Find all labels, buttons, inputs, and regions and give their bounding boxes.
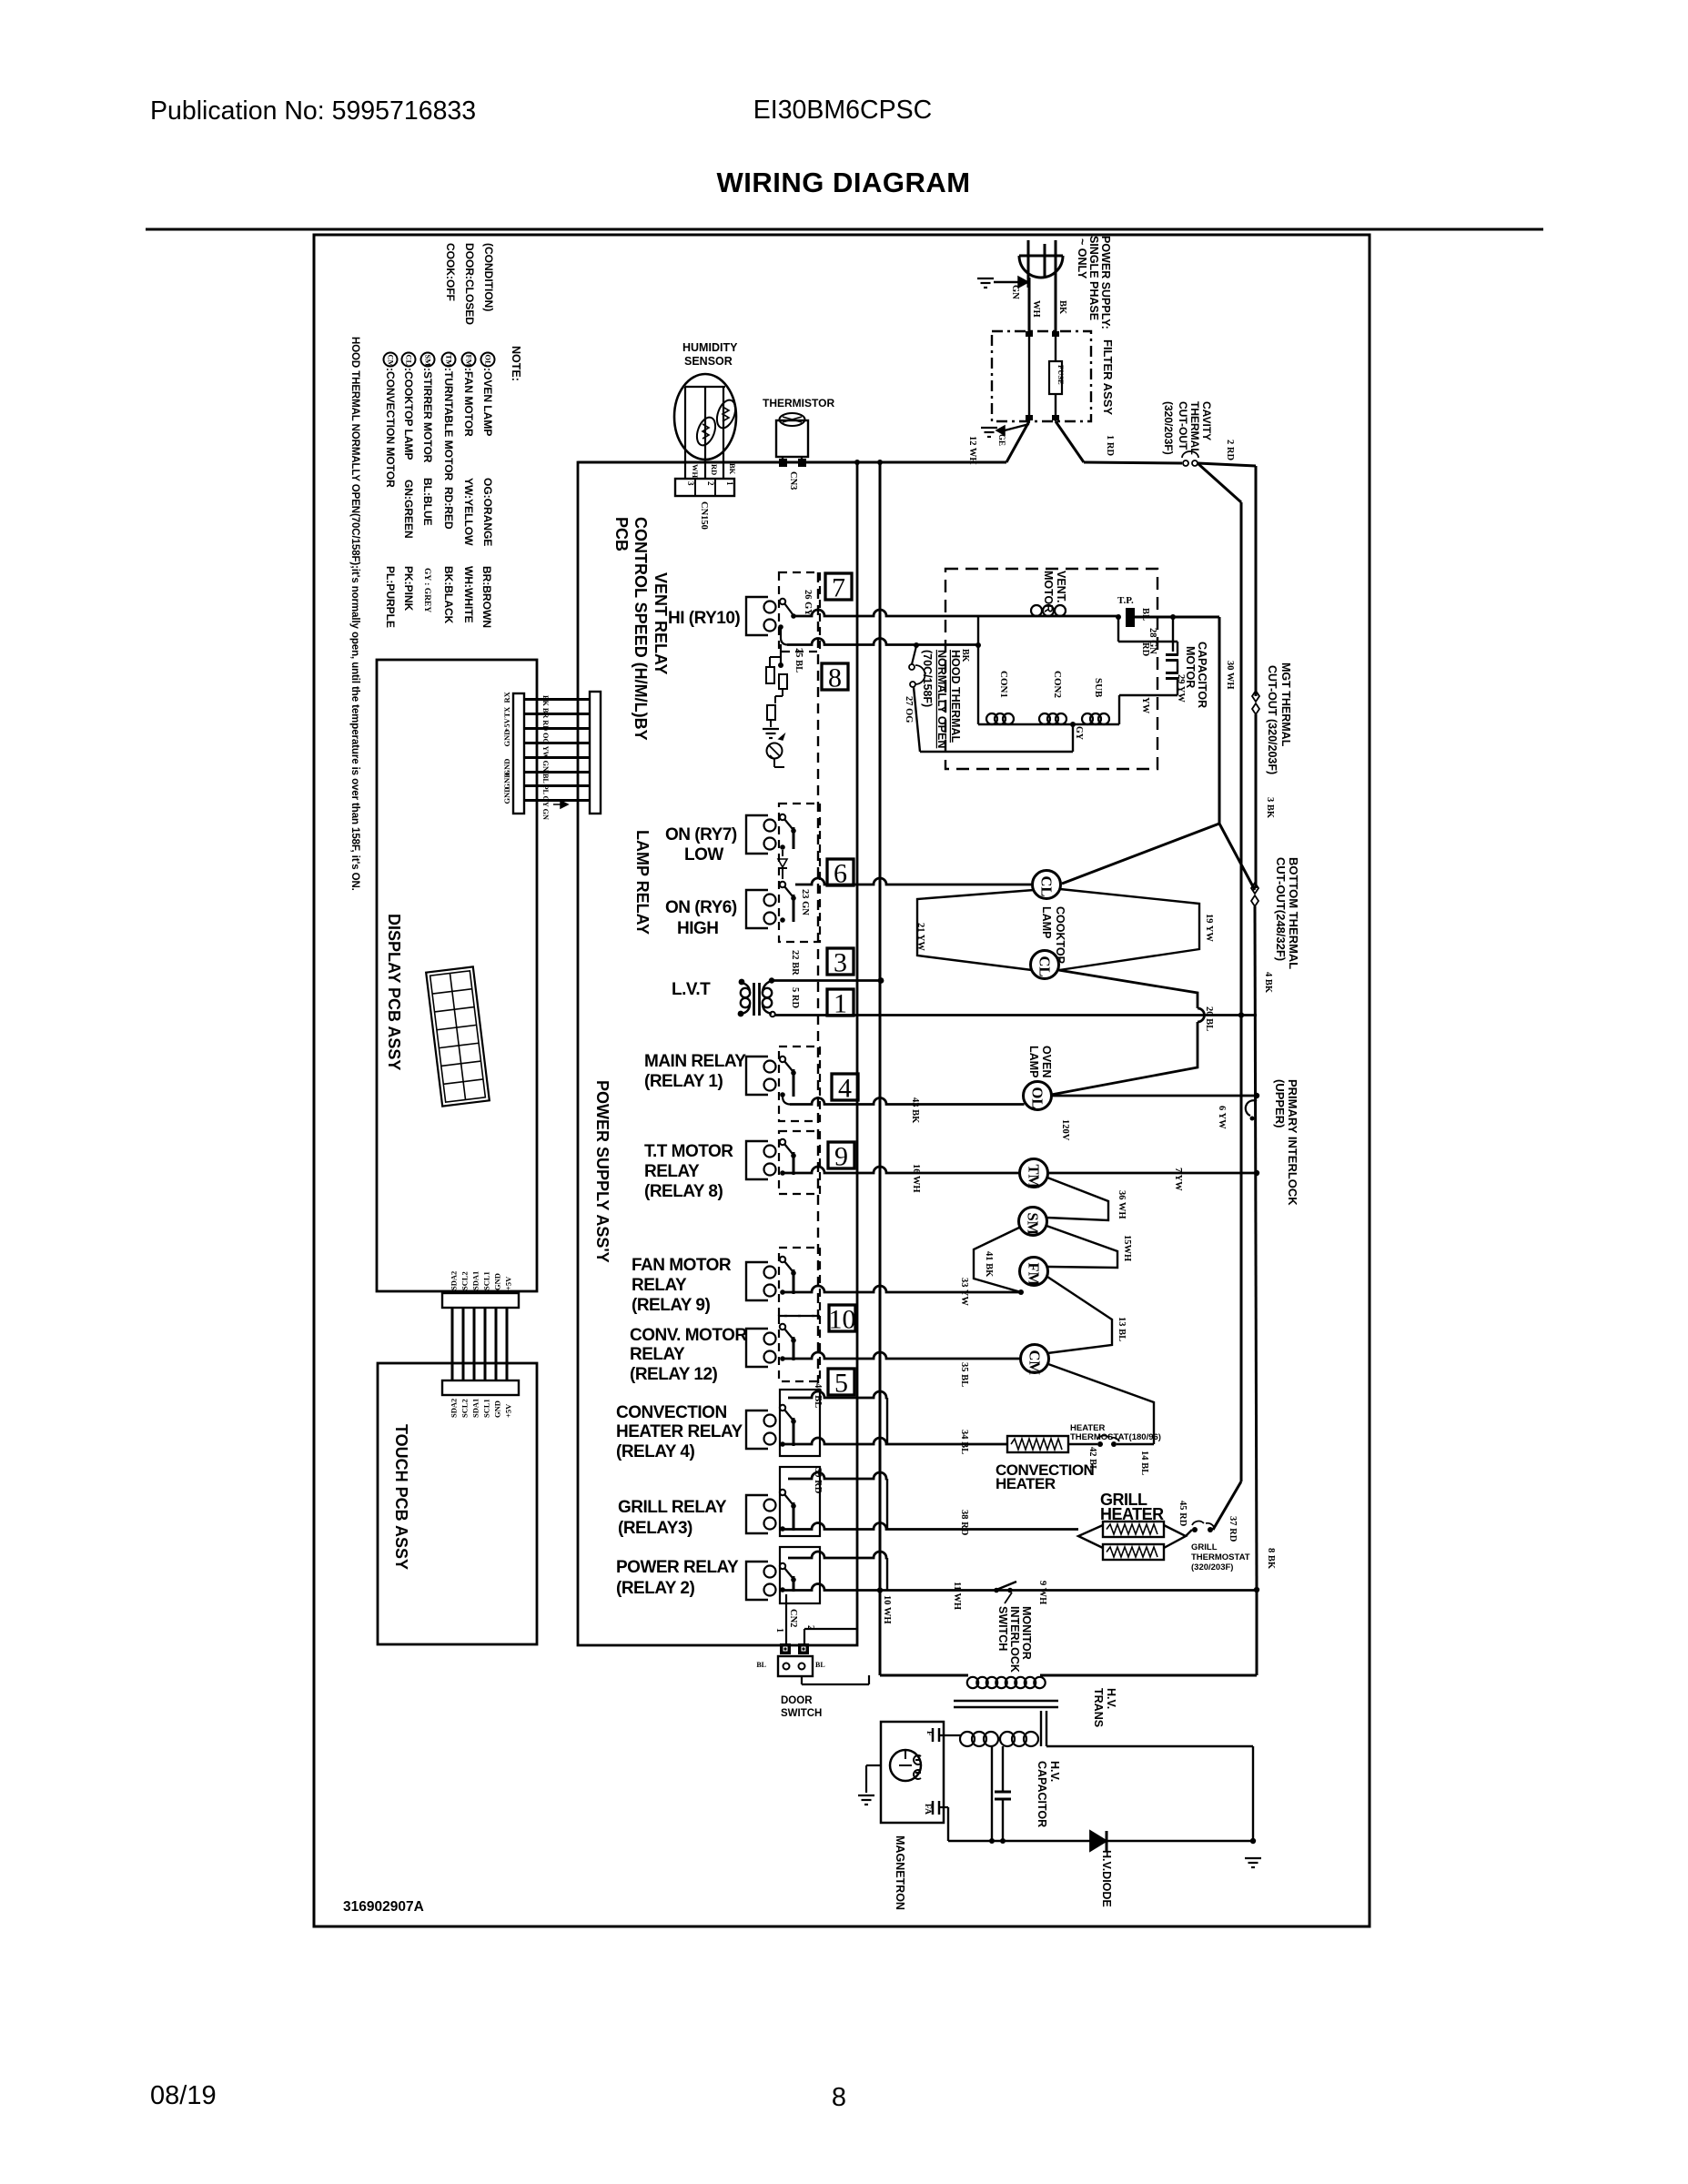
svg-text:PCB: PCB [612, 517, 631, 551]
svg-text:ON (RY7): ON (RY7) [665, 825, 737, 844]
svg-text:BL: BL [756, 1661, 766, 1669]
svg-text:CUT-OUT(248/32F): CUT-OUT(248/32F) [1274, 857, 1288, 961]
svg-text:VENT RELAY: VENT RELAY [652, 572, 670, 674]
svg-text:RX: RX [502, 691, 511, 703]
svg-text:EI30BM6CPSC: EI30BM6CPSC [753, 96, 932, 125]
svg-text:39 RD: 39 RD [813, 1468, 823, 1494]
svg-text:GY : GREY: GY : GREY [422, 568, 431, 612]
svg-text:THERMOSTAT: THERMOSTAT [1191, 1552, 1250, 1562]
svg-text:T.P.: T.P. [1117, 595, 1134, 606]
svg-text:36 WH: 36 WH [1117, 1190, 1127, 1219]
svg-text:GE: GE [997, 434, 1006, 446]
svg-text:1: 1 [774, 1628, 784, 1633]
svg-text:5 RD: 5 RD [790, 987, 800, 1008]
svg-text:MAIN RELAY: MAIN RELAY [644, 1052, 746, 1071]
svg-text:SDA2: SDA2 [450, 1271, 459, 1290]
svg-text::TURNTABLE MOTOR: :TURNTABLE MOTOR [442, 368, 455, 481]
svg-text:42 BL: 42 BL [1087, 1447, 1097, 1471]
svg-text:BOTTOM THERMAL: BOTTOM THERMAL [1287, 857, 1300, 969]
svg-text:8: 8 [828, 663, 842, 693]
svg-text:5: 5 [834, 1369, 848, 1399]
svg-text:SWITCH: SWITCH [781, 1708, 822, 1719]
svg-text:THERMOSTAT(180/96): THERMOSTAT(180/96) [1070, 1432, 1161, 1442]
svg-text:(70C/158F): (70C/158F) [921, 650, 934, 707]
svg-text:13 BL: 13 BL [1117, 1317, 1127, 1341]
svg-text:7 YW: 7 YW [1173, 1168, 1183, 1191]
svg-text:9 WH: 9 WH [1037, 1581, 1047, 1604]
svg-text:OL: OL [484, 355, 493, 367]
svg-text:2 RD: 2 RD [1225, 440, 1235, 460]
svg-text:FAN MOTOR: FAN MOTOR [632, 1256, 732, 1275]
svg-text:+5V: +5V [504, 1403, 513, 1418]
svg-text:H.V.: H.V. [1048, 1761, 1061, 1782]
svg-text:CL: CL [405, 355, 414, 366]
svg-text:FA: FA [923, 1804, 932, 1815]
svg-text:25 BL: 25 BL [793, 648, 804, 672]
svg-text:28 GN: 28 GN [1147, 628, 1157, 654]
svg-text:9: 9 [834, 1142, 848, 1172]
svg-text:CN3: CN3 [788, 471, 798, 490]
svg-text:LOW: LOW [684, 845, 723, 864]
svg-text:(CONDITION): (CONDITION) [482, 243, 495, 311]
svg-text:GND: GND [502, 787, 511, 804]
svg-text:HI (RY10): HI (RY10) [668, 609, 740, 628]
svg-text:CON1: CON1 [998, 671, 1009, 698]
svg-text:120V: 120V [1060, 1119, 1070, 1141]
svg-text:SDA1: SDA1 [471, 1399, 480, 1418]
svg-text:21 YW: 21 YW [915, 923, 925, 951]
svg-text:43 BK: 43 BK [910, 1097, 920, 1124]
svg-text:20 BL: 20 BL [1204, 1006, 1214, 1031]
svg-text:MGT THERMAL: MGT THERMAL [1279, 662, 1292, 747]
svg-text:CON2: CON2 [1052, 671, 1063, 698]
svg-text:CONVECTION: CONVECTION [616, 1403, 727, 1422]
svg-text:CUT-OUT (320/203F): CUT-OUT (320/203F) [1266, 665, 1279, 774]
svg-text:CAVITY: CAVITY [1200, 401, 1213, 440]
svg-text:(UPPER): (UPPER) [1273, 1079, 1287, 1127]
svg-text::OVEN LAMP: :OVEN LAMP [481, 368, 494, 436]
svg-text:GND: GND [493, 1273, 502, 1290]
svg-text:CN2: CN2 [788, 1609, 798, 1627]
svg-text:41 BK: 41 BK [984, 1251, 994, 1278]
svg-text:HEATER RELAY: HEATER RELAY [616, 1422, 743, 1441]
svg-text:SM: SM [1025, 1213, 1042, 1236]
svg-text:LAMP RELAY: LAMP RELAY [633, 830, 652, 935]
svg-text:GND: GND [502, 730, 511, 747]
svg-text:SCL1: SCL1 [482, 1271, 491, 1290]
svg-text:LAMP: LAMP [1027, 1046, 1040, 1077]
svg-text:BK: BK [728, 463, 737, 475]
svg-text:3: 3 [834, 948, 847, 978]
svg-text:RELAY: RELAY [644, 1162, 700, 1181]
svg-text:HOOD THERMAL NORMALLY OPEN(70C: HOOD THERMAL NORMALLY OPEN(70C/158F);it'… [349, 337, 360, 891]
svg-text:SCL2: SCL2 [460, 1399, 470, 1418]
svg-text::FAN MOTOR: :FAN MOTOR [462, 368, 475, 437]
svg-text:45 RD: 45 RD [1178, 1501, 1188, 1527]
svg-text:WIRING DIAGRAM: WIRING DIAGRAM [716, 167, 970, 198]
svg-text:(RELAY 2): (RELAY 2) [616, 1579, 694, 1598]
svg-text:OG:ORANGE: OG:ORANGE [481, 478, 494, 546]
svg-text:RD:RED: RD:RED [442, 487, 455, 530]
svg-text:26 GY: 26 GY [803, 590, 813, 616]
svg-text:PRIMARY INTERLOCK: PRIMARY INTERLOCK [1286, 1079, 1299, 1206]
svg-text:BL: BL [815, 1661, 825, 1669]
svg-text:T.T MOTOR: T.T MOTOR [644, 1142, 733, 1161]
svg-text:~ ONLY: ~ ONLY [1076, 238, 1088, 279]
svg-text:CM: CM [387, 355, 396, 368]
svg-text:SENSOR: SENSOR [684, 355, 733, 368]
svg-text:FILTER ASSY: FILTER ASSY [1101, 339, 1115, 415]
svg-text:WH: WH [691, 464, 700, 479]
svg-text:FUSE: FUSE [1056, 365, 1066, 385]
svg-text:SDA1: SDA1 [471, 1271, 480, 1290]
svg-text::COOKTOP LAMP: :COOKTOP LAMP [402, 368, 415, 460]
svg-text:HUMIDITY: HUMIDITY [682, 341, 738, 354]
svg-text:40 BL: 40 BL [813, 1383, 823, 1408]
svg-text:Publication No: 5995716833: Publication No: 5995716833 [150, 96, 476, 126]
svg-text:HEATER: HEATER [996, 1475, 1056, 1492]
svg-text:GND: GND [493, 1400, 502, 1418]
svg-text:BL:BLUE: BL:BLUE [421, 478, 434, 526]
svg-text:NOTE:: NOTE: [510, 346, 522, 381]
svg-text:SM: SM [424, 355, 433, 367]
svg-text:VENT.: VENT. [1055, 571, 1067, 602]
svg-text:YW:YELLOW: YW:YELLOW [462, 478, 475, 546]
svg-text:+5V: +5V [504, 1276, 513, 1290]
svg-text:11 WH: 11 WH [952, 1582, 962, 1610]
svg-text:BK:BLACK: BK:BLACK [442, 566, 455, 624]
svg-text:THERMAL: THERMAL [1188, 401, 1201, 455]
svg-text:CUT-OUT: CUT-OUT [1177, 401, 1189, 450]
svg-text:7: 7 [832, 573, 845, 603]
svg-text:SCL1: SCL1 [482, 1399, 491, 1418]
svg-text:HIGH: HIGH [677, 919, 719, 938]
svg-text:OL: OL [1029, 1087, 1046, 1109]
svg-text:(RELAY 9): (RELAY 9) [632, 1296, 710, 1315]
svg-text:L.V.T: L.V.T [672, 980, 711, 999]
svg-text:08/19: 08/19 [150, 2081, 217, 2110]
svg-text:OVEN: OVEN [1040, 1046, 1053, 1077]
svg-text:BK BR RD OG YW GN BL PL GY GN: BK BR RD OG YW GN BL PL GY GN [541, 695, 550, 820]
svg-text:3 BK: 3 BK [1265, 797, 1275, 819]
svg-text:(RELAY 4): (RELAY 4) [616, 1442, 694, 1461]
svg-text:POWER SUPPLY:: POWER SUPPLY: [1099, 236, 1112, 329]
svg-text:38 RD: 38 RD [959, 1510, 969, 1536]
svg-text:TM: TM [1026, 1165, 1043, 1189]
svg-text:MAGNETRON: MAGNETRON [894, 1835, 906, 1910]
svg-text:(320/203F): (320/203F) [1162, 401, 1175, 455]
svg-text:WH: WH [1031, 300, 1041, 318]
svg-text:GN: GN [1010, 285, 1020, 299]
svg-text:GY: GY [1074, 726, 1084, 741]
svg-text:BK: BK [1057, 300, 1067, 315]
svg-text:ON (RY6): ON (RY6) [665, 898, 737, 917]
svg-text:35 BL: 35 BL [959, 1362, 969, 1387]
svg-text:GN:GREEN: GN:GREEN [402, 480, 415, 539]
svg-text:(RELAY 8): (RELAY 8) [644, 1182, 723, 1201]
svg-text:CL: CL [1036, 956, 1054, 977]
svg-text:FM: FM [465, 355, 474, 367]
svg-text:INTERLOCK: INTERLOCK [1008, 1606, 1021, 1673]
svg-text::CONVECTION MOTOR: :CONVECTION MOTOR [384, 368, 397, 488]
svg-text:CAPACITOR: CAPACITOR [1196, 642, 1208, 708]
svg-text:SDA2: SDA2 [450, 1399, 459, 1418]
svg-text:4 BK: 4 BK [1263, 972, 1273, 994]
svg-text:MONITOR: MONITOR [1020, 1606, 1033, 1660]
svg-text:COOK:OFF: COOK:OFF [444, 243, 457, 301]
svg-text:(320/203F): (320/203F) [1191, 1562, 1233, 1572]
svg-text:MOTOR: MOTOR [1184, 646, 1197, 688]
svg-text:23 GN: 23 GN [800, 889, 810, 915]
svg-text:SINGLE PHASE: SINGLE PHASE [1087, 236, 1100, 320]
svg-text:HOOD THERMAL: HOOD THERMAL [949, 650, 962, 743]
svg-text:RELAY: RELAY [632, 1276, 687, 1295]
svg-text:DOOR:CLOSED: DOOR:CLOSED [463, 243, 476, 325]
svg-text:PL:PURPLE: PL:PURPLE [384, 566, 397, 628]
svg-text:(RELAY 12): (RELAY 12) [630, 1365, 718, 1384]
svg-text:4: 4 [838, 1074, 852, 1104]
svg-text:POWER SUPPLY ASS'Y: POWER SUPPLY ASS'Y [593, 1080, 612, 1263]
svg-text:22 BR: 22 BR [790, 950, 800, 976]
svg-text:WH:WHITE: WH:WHITE [462, 566, 475, 623]
svg-text:DOOR: DOOR [781, 1695, 813, 1706]
svg-text:3: 3 [686, 481, 695, 486]
svg-text::STIRRER MOTOR: :STIRRER MOTOR [421, 368, 434, 463]
svg-text:CONTROL SPEED (H/M/L)BY: CONTROL SPEED (H/M/L)BY [632, 517, 650, 741]
svg-text:(RELAY3): (RELAY3) [618, 1519, 692, 1538]
svg-text:GRILL RELAY: GRILL RELAY [618, 1498, 727, 1517]
svg-text:RELAY: RELAY [630, 1345, 685, 1364]
svg-text:27 OG: 27 OG [904, 696, 914, 723]
svg-text:37 RD: 37 RD [1228, 1516, 1238, 1542]
svg-text:8: 8 [832, 2083, 846, 2112]
svg-text:FM: FM [1026, 1263, 1043, 1287]
svg-text:16 WH: 16 WH [911, 1164, 921, 1193]
svg-text:F: F [925, 1731, 934, 1736]
svg-text:CAPACITOR: CAPACITOR [1036, 1761, 1048, 1827]
svg-text:RD: RD [710, 464, 719, 475]
svg-text:H.V.DIODE: H.V.DIODE [1100, 1850, 1113, 1907]
svg-text:SUB: SUB [1093, 678, 1104, 698]
svg-text:TM: TM [445, 355, 454, 368]
svg-text:12 WH: 12 WH [967, 436, 977, 465]
svg-text:2: 2 [706, 481, 715, 486]
svg-text:10 WH: 10 WH [882, 1595, 892, 1624]
svg-text:BR:BROWN: BR:BROWN [480, 566, 493, 628]
svg-text:SCL2: SCL2 [460, 1271, 470, 1290]
svg-text:1 RD: 1 RD [1105, 435, 1115, 456]
svg-text:GRILL: GRILL [1191, 1542, 1218, 1552]
svg-text:30 WH: 30 WH [1225, 661, 1235, 690]
svg-text:LAMP: LAMP [1040, 906, 1053, 938]
svg-text:TRANS: TRANS [1092, 1688, 1105, 1727]
svg-text:NORMALLY OPEN: NORMALLY OPEN [935, 650, 948, 748]
svg-text:COOKTOP: COOKTOP [1054, 906, 1066, 964]
svg-text:POWER RELAY: POWER RELAY [616, 1558, 739, 1577]
svg-text:SWITCH: SWITCH [996, 1606, 1009, 1651]
svg-text:CONV. MOTOR: CONV. MOTOR [630, 1326, 747, 1345]
svg-text:BL: BL [1140, 608, 1150, 621]
svg-text:THERMISTOR: THERMISTOR [763, 397, 834, 409]
svg-text:15WH: 15WH [1122, 1235, 1132, 1261]
svg-text:CL: CL [1038, 876, 1056, 897]
svg-text:316902907A: 316902907A [343, 1899, 424, 1915]
svg-text:DISPLAY PCB ASSY: DISPLAY PCB ASSY [385, 914, 403, 1070]
svg-text:YW: YW [1140, 697, 1150, 714]
svg-text:34 BL: 34 BL [959, 1430, 969, 1454]
svg-text:(RELAY 1): (RELAY 1) [644, 1072, 723, 1091]
svg-text:TX: TX [502, 706, 511, 718]
svg-text:TOUCH PCB ASSY: TOUCH PCB ASSY [392, 1424, 410, 1570]
svg-text:14 BL: 14 BL [1139, 1451, 1149, 1475]
svg-text:6 YW: 6 YW [1217, 1106, 1227, 1129]
svg-text:CN150: CN150 [699, 501, 709, 530]
svg-text:33 YW: 33 YW [959, 1278, 969, 1306]
svg-text:H.V.: H.V. [1105, 1688, 1117, 1709]
svg-text:PK:PINK: PK:PINK [402, 566, 415, 612]
svg-text:1: 1 [725, 481, 734, 486]
svg-text:CM: CM [1026, 1350, 1044, 1376]
svg-text:10: 10 [829, 1305, 856, 1335]
svg-text:8 BK: 8 BK [1266, 1548, 1276, 1570]
svg-text:19 YW: 19 YW [1204, 914, 1214, 942]
